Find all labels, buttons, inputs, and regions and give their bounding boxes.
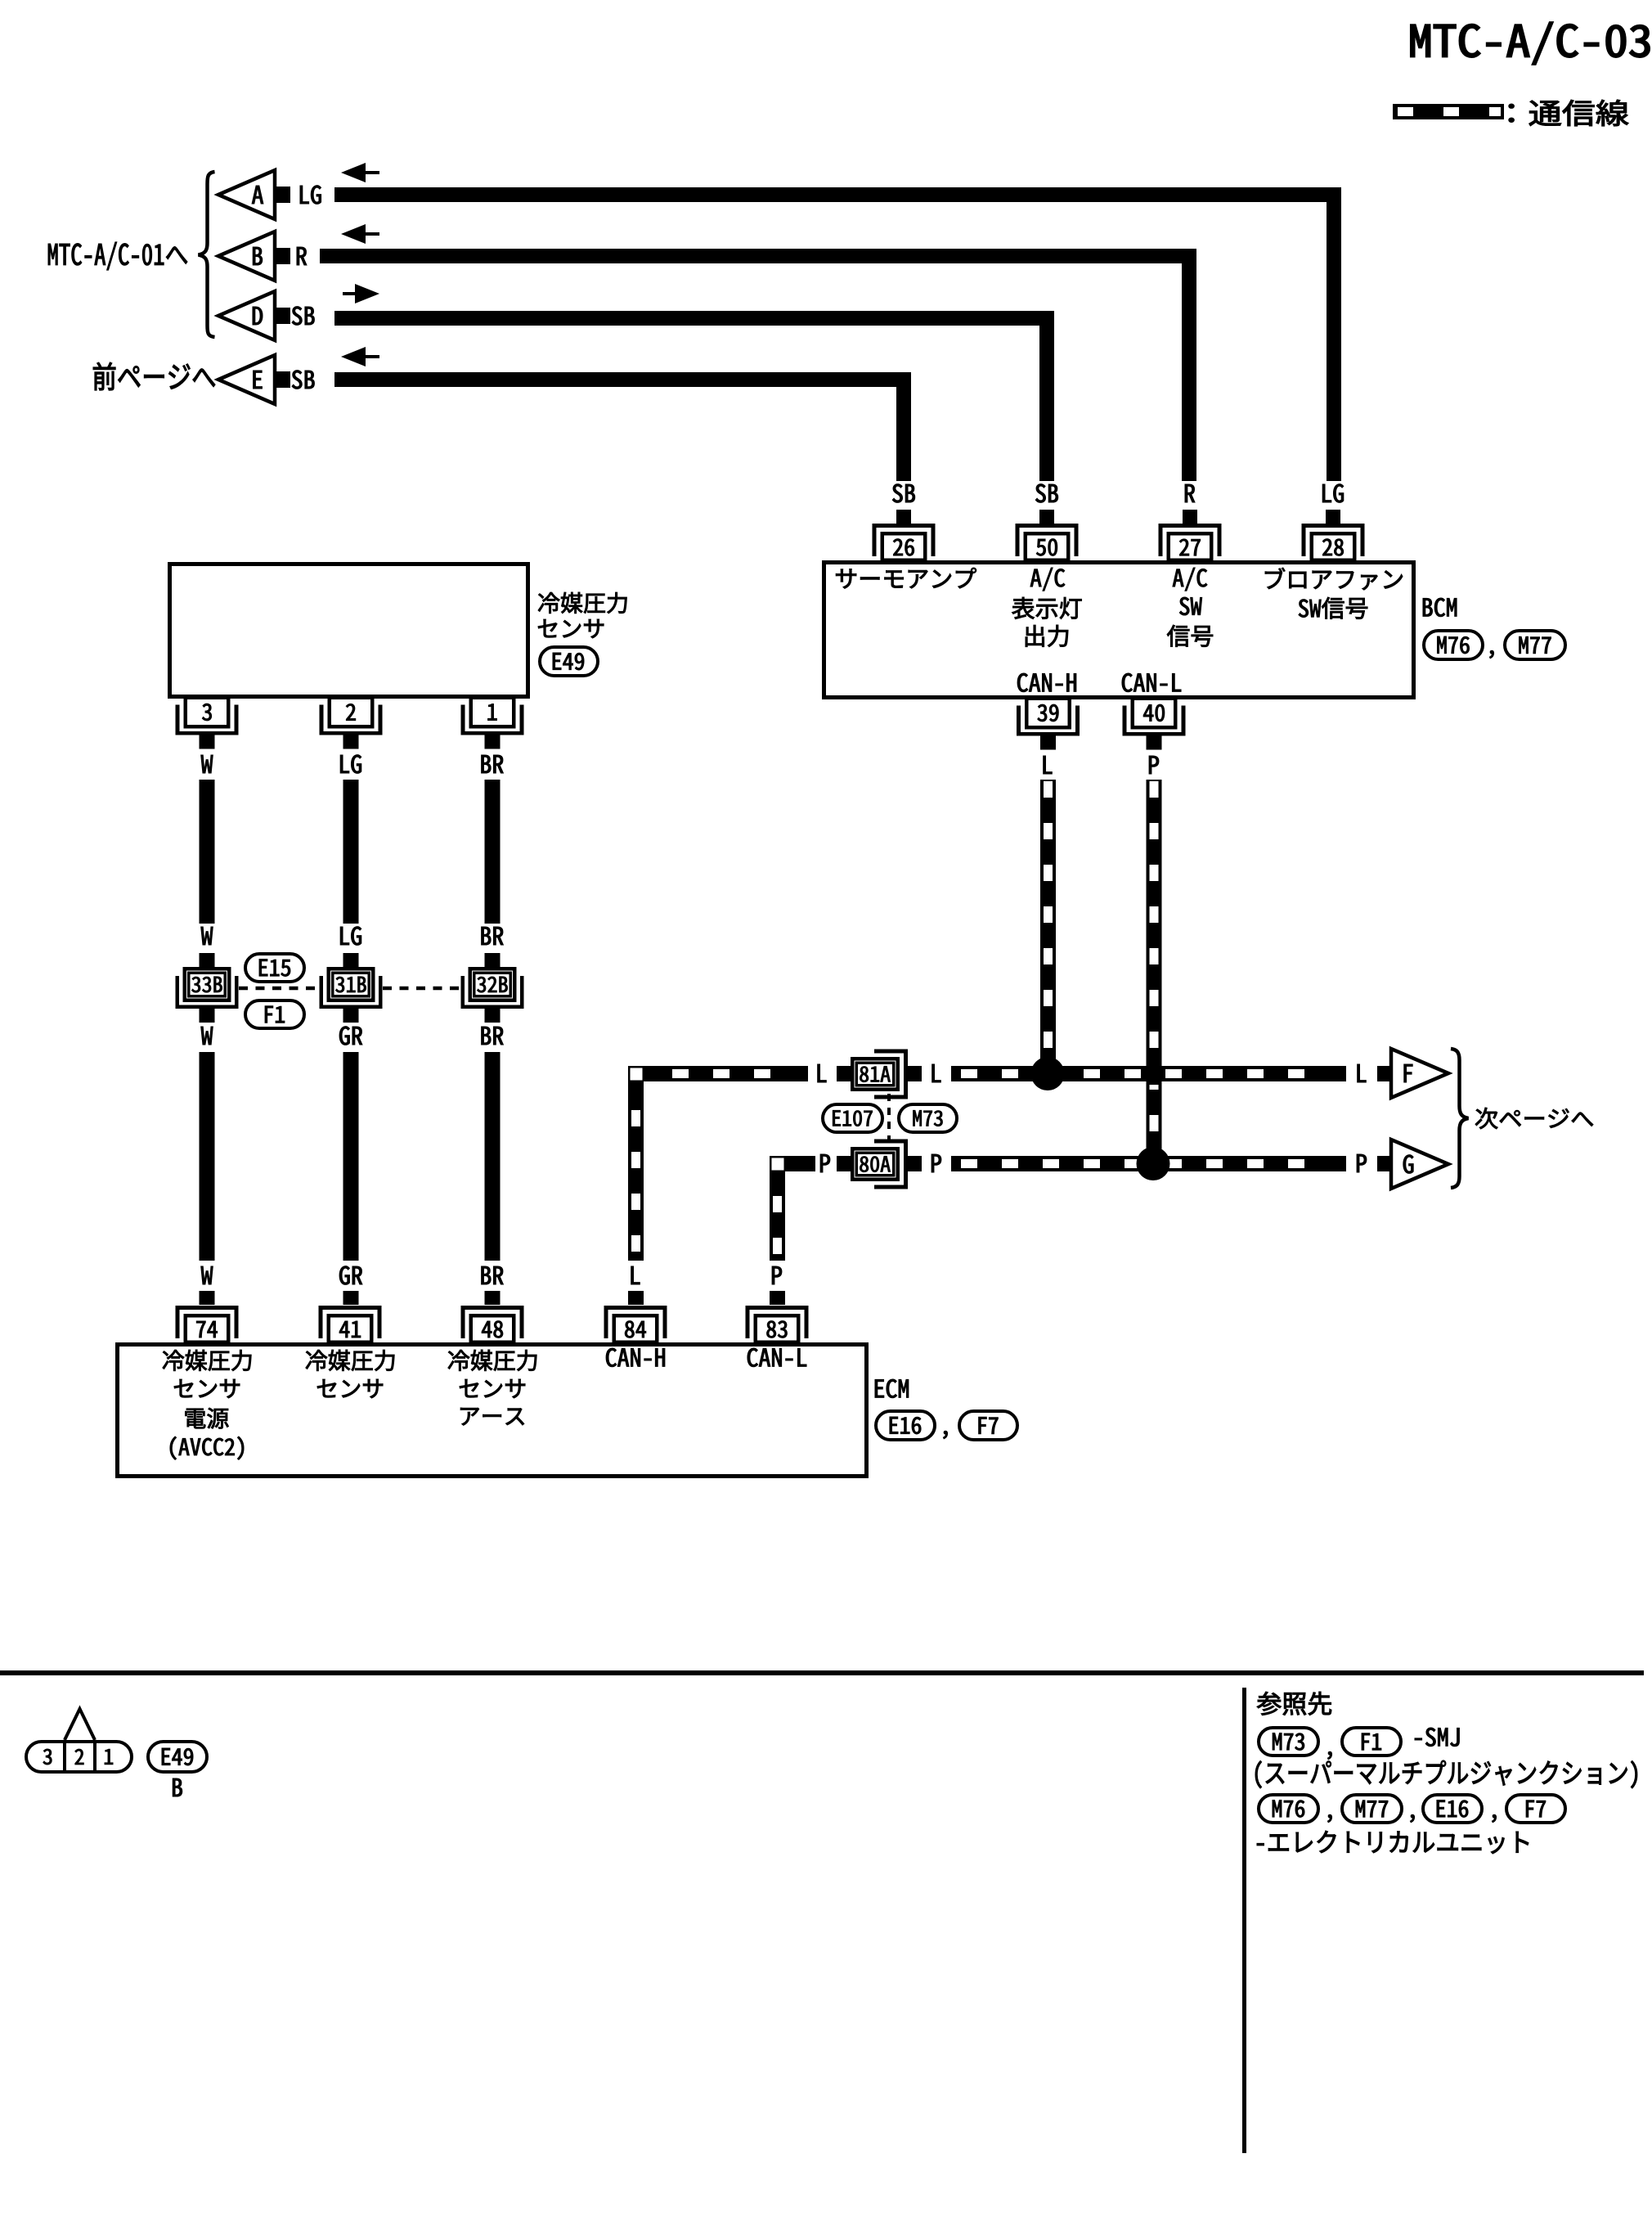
ECM label 冷媒圧力 (74) [163, 1350, 251, 1371]
connector ref M76 (list) [1259, 1795, 1318, 1823]
BCM name label [1423, 598, 1457, 617]
stub right of 80A [908, 1156, 922, 1171]
BCM label SW信号 [1299, 597, 1367, 619]
wire E (SB) to BCM pin 26 [334, 372, 911, 481]
comma after M77 [1410, 1814, 1414, 1823]
ECM label 冷媒圧力 (41) [306, 1350, 394, 1371]
connector ref M73 [899, 1104, 957, 1132]
dashed link E107-M73 [887, 1094, 891, 1147]
sensor pin 1 [461, 698, 524, 749]
wire label R (row B) [297, 247, 307, 265]
connector ref E49 [540, 647, 598, 676]
comma after M73 [1327, 1751, 1331, 1760]
stub into ECM pin 84 [628, 1291, 644, 1305]
BCM label サーモアンプ [836, 568, 976, 588]
label センサ (sensor) [538, 619, 604, 638]
legend label ：通信線 [1509, 100, 1628, 126]
connector ref F7 [959, 1411, 1017, 1440]
ECM name label [875, 1379, 909, 1398]
label MTC-A/C-01へ [48, 242, 187, 270]
wire BR SMJ to ECM [485, 1052, 501, 1261]
BCM pin 27 [1159, 524, 1222, 560]
ECM box [118, 1345, 867, 1477]
wire LG sensor to SMJ [343, 780, 359, 924]
wire label P below pin 40 [1149, 756, 1159, 774]
stub into ECM pin W [200, 1291, 215, 1305]
BCM label CAN-L [1122, 673, 1181, 692]
ECM pin 41 [319, 1306, 382, 1342]
ECM pin 48 [461, 1306, 524, 1342]
brace right for F,G [1451, 1049, 1469, 1188]
stub into BCM pin at x=1105 [896, 510, 911, 524]
legend comm-line sample bar [1393, 104, 1504, 119]
ECM label CAN-L [747, 1348, 806, 1367]
direction arrow row D [343, 284, 379, 303]
off-page triangle F [1391, 1049, 1448, 1098]
comm line L row to triangle F [951, 1066, 1346, 1081]
wire label L below pin 39 [1044, 756, 1053, 774]
ECM label CAN-H [606, 1348, 665, 1367]
connector ref F1 [245, 1000, 304, 1028]
connector ref M76 [1424, 631, 1483, 659]
BCM label 出力 [1026, 625, 1068, 647]
BCM label 信号 [1167, 625, 1213, 647]
BCM pin 28 [1302, 524, 1365, 560]
stub into BCM pin at x=1455 [1183, 510, 1197, 524]
stub before triangle G [1377, 1156, 1391, 1171]
BCM pin 40 [1123, 699, 1186, 750]
SMJ connector 32B [461, 953, 524, 1023]
sensor box (冷媒圧力センサ E49) [170, 564, 528, 697]
ECM pin 74 [176, 1306, 239, 1342]
off-page triangle E [218, 355, 275, 404]
ECM pin 84 [604, 1306, 667, 1342]
wire label L above ECM pin 84 [631, 1266, 640, 1284]
wire label R above pin 27 [1185, 484, 1195, 502]
wire label W below sensor pin 3 [201, 755, 213, 773]
label L left of 81A [818, 1064, 827, 1082]
stub left of 80A [837, 1156, 851, 1171]
wire label LG (row A) [300, 186, 321, 205]
wire label SB above pin 26 [892, 484, 914, 503]
wire label SB above pin 50 [1035, 484, 1057, 503]
BCM label SW [1179, 597, 1201, 615]
stub into ECM pin 83 [770, 1291, 785, 1305]
BCM pin 39 [1017, 699, 1080, 750]
triangle A stub [276, 187, 290, 203]
connector ref E107 [823, 1104, 882, 1132]
off-page triangle D [218, 291, 275, 340]
label L before triangle F [1358, 1064, 1367, 1082]
comm riser from BCM pin 40 (P) [1147, 780, 1162, 1152]
triangle D stub [276, 308, 290, 324]
connector ref E15 [245, 954, 304, 982]
comm riser from BCM pin 39 (L) [1040, 780, 1056, 1062]
wire B (R) to BCM pin 27 [320, 249, 1196, 481]
ECM label アース (48) [460, 1408, 524, 1425]
comm line P row to triangle G [951, 1156, 1346, 1171]
label L right of 81A [932, 1064, 941, 1082]
wire label GR below 31B [339, 1027, 362, 1045]
wire label GR above ECM [339, 1266, 362, 1285]
junction dot P/40 [1137, 1147, 1170, 1180]
label 前ページへ [93, 362, 215, 390]
stub before triangle F [1377, 1066, 1391, 1081]
stub into ECM pin BR [485, 1291, 501, 1305]
wire label SB (row D) [292, 307, 314, 326]
comm riser to ECM pin 83 (P) [770, 1156, 815, 1261]
BCM pin 50 [1016, 524, 1079, 560]
BCM label A/C (pin50) [1030, 568, 1065, 591]
connector ref M77 (list) [1342, 1795, 1402, 1823]
stub left of 81A [837, 1066, 851, 1081]
sensor pin 3 [176, 698, 239, 749]
stub right of 81A [908, 1066, 922, 1081]
section divider vertical line [1242, 1688, 1246, 2153]
connector ref F7 (list) [1506, 1795, 1565, 1823]
label P before triangle G [1357, 1154, 1367, 1172]
separator line [0, 1670, 1644, 1675]
label スーパーマルチプルジャンクション [1255, 1760, 1637, 1788]
BCM label CAN-H [1017, 673, 1076, 692]
direction arrow row A [341, 163, 379, 182]
brace left for A,B,D [199, 172, 215, 337]
label 冷媒圧力 (sensor) [538, 592, 626, 614]
wire label BR above SMJ [482, 927, 504, 945]
wire label W below 33B [201, 1027, 213, 1045]
ECM label センサ (41) [317, 1379, 383, 1398]
direction arrow row B [341, 224, 379, 244]
comma between E16 F7 [943, 1431, 947, 1439]
triangle E stub [276, 371, 290, 388]
BCM label ブロアファン [1265, 568, 1403, 590]
wire label LG above SMJ [340, 927, 361, 946]
BCM label A/C (pin27) [1173, 568, 1207, 591]
wire W SMJ to ECM [200, 1052, 215, 1261]
comm elbow + riser to ECM pin 84 (L) [628, 1066, 808, 1261]
label -SMJ [1415, 1728, 1459, 1747]
sensor pin 2 [320, 698, 383, 749]
dashed link 31B-32B [383, 987, 460, 991]
comma between M76 M77 [1489, 650, 1493, 659]
SMJ connector 81A [852, 1050, 908, 1099]
label P left of 80A [820, 1154, 830, 1172]
wire label BR above ECM [482, 1266, 504, 1284]
off-page triangle G [1391, 1140, 1448, 1189]
label P right of 80A [931, 1154, 941, 1172]
wire A (LG) to BCM pin 28 [334, 187, 1341, 481]
connector ref M73 (list) [1259, 1728, 1318, 1756]
comma after E16 [1492, 1814, 1496, 1823]
connector ref F1 (list) [1342, 1728, 1401, 1756]
BCM pin 26 [873, 524, 936, 560]
stub into ECM pin GR [343, 1291, 359, 1305]
wire label P above ECM pin 83 [772, 1266, 782, 1284]
ECM label センサ (74) [174, 1379, 240, 1398]
wire label W above ECM [201, 1266, 213, 1284]
ECM label センサ (48) [460, 1379, 525, 1398]
junction dot L/39 [1031, 1057, 1065, 1090]
ECM pin 83 [746, 1306, 809, 1342]
wire label LG above pin 28 [1322, 484, 1344, 503]
wire label SB (row E) [292, 371, 314, 389]
comma after M76 [1327, 1814, 1331, 1823]
wire GR SMJ to ECM [343, 1052, 359, 1261]
connector ref E16 [876, 1411, 935, 1440]
wire W sensor to SMJ [200, 780, 215, 924]
connector ref E16 (list) [1423, 1795, 1482, 1823]
label 次ページへ [1475, 1108, 1593, 1129]
BCM label 表示灯 [1012, 597, 1081, 619]
wire label BR below sensor pin 1 [482, 755, 504, 773]
crossing patch pin40 wire over L row [1147, 1063, 1162, 1085]
direction arrow row E [341, 347, 379, 366]
SMJ connector 80A [852, 1140, 908, 1189]
title MTC-A/C-03 [1411, 22, 1650, 65]
stub into BCM pin at x=1630 [1326, 510, 1340, 524]
wire D (SB) to BCM pin 50 [334, 311, 1054, 481]
connector ref E49 (bottom) [148, 1742, 207, 1772]
dashed link 33B-31B [239, 987, 319, 991]
off-page triangle B [218, 232, 275, 281]
off-page triangle A [218, 170, 275, 219]
SMJ connector 31B [320, 953, 383, 1023]
label -エレクトリカルユニット [1257, 1831, 1529, 1854]
wire label LG below sensor pin 2 [340, 755, 361, 774]
label 参照先 [1257, 1692, 1331, 1715]
wire label BR below 32B [482, 1027, 504, 1045]
stub into BCM pin at x=1280 [1039, 510, 1054, 524]
connector ref M77 [1505, 631, 1565, 659]
ECM label 冷媒圧力 (48) [448, 1350, 536, 1371]
wire BR sensor to SMJ [485, 780, 501, 924]
ECM label 電源 (74) [185, 1408, 228, 1428]
wire label W above SMJ [201, 927, 213, 945]
SMJ connector 33B [176, 953, 239, 1023]
BCM box [824, 563, 1414, 698]
ECM label (AVCC2) [170, 1436, 244, 1459]
label B below E49 [173, 1778, 182, 1796]
connector face E49 pill [26, 1709, 132, 1774]
triangle B stub [276, 248, 290, 264]
